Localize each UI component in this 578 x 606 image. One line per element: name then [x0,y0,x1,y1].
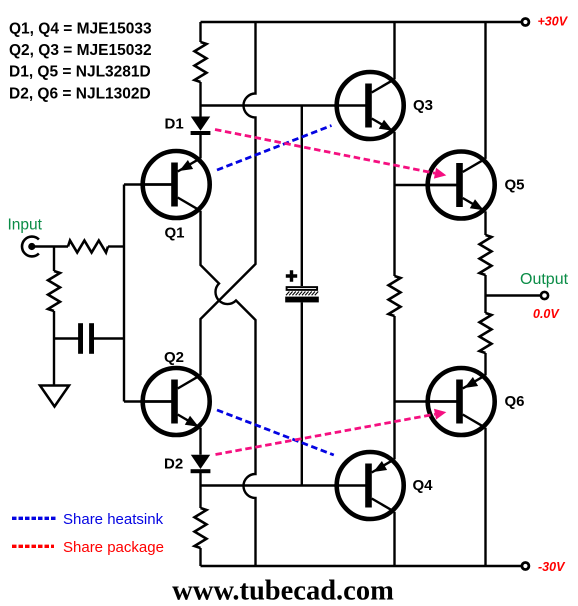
svg-text:Q5: Q5 [505,177,525,194]
svg-text:D2: D2 [164,456,183,473]
wire Q4 collector to rail [393,512,395,566]
wire R2 to -30V rail [199,548,201,566]
wire C- down to Q4-base line [301,302,303,485]
transistor Q2 (NPN) [140,368,210,435]
capacitor C (electrolytic, + top) [285,270,319,302]
svg-text:Q3: Q3 [413,97,433,114]
share-package dashed line D2-Q6 [216,409,447,455]
share-heatsink dashed line Q2-Q4 [217,410,334,455]
svg-text:-30V: -30V [538,560,566,574]
svg-text:D2, Q6 = NJL1302D: D2, Q6 = NJL1302D [9,86,151,103]
legend share heatsink [12,511,164,528]
wire Q2 base [124,400,171,402]
wire mid resistor to Q4 emitter [393,316,395,459]
svg-text:Q2, Q3 = MJE15032: Q2, Q3 = MJE15032 [9,42,152,59]
resistor (top left bias) [195,42,207,82]
svg-text:Input: Input [8,217,43,234]
wire Q6 collector to rail [484,428,486,566]
wire Q5 base tap [395,184,457,186]
resistor (bottom left bias) [195,508,207,548]
transistor Q3 (NPN) [334,72,404,139]
diode D1 [191,117,211,136]
svg-text:+30V: +30V [538,14,569,28]
svg-text:Q2: Q2 [164,349,184,366]
wire shunt R to cap tee [53,311,55,339]
svg-text:Q1: Q1 [165,225,185,242]
wire jack to junction [35,245,68,247]
wire Q2 emitter to D2 [199,428,201,455]
svg-text:Share heatsink: Share heatsink [63,511,164,528]
resistor (input series) [68,241,108,253]
resistor (Q5 emitter) [480,235,492,275]
svg-text:D1: D1 [165,116,184,133]
wire base column (Q1 base to Q2 base) [123,185,125,402]
resistor (middle driver) [389,276,401,316]
wire D1 to Q1 emitter [199,135,201,159]
svg-text:Share package: Share package [63,539,164,556]
wire R5 to output node [484,275,486,313]
diode D2 [191,455,211,474]
svg-text:Q1, Q4 = MJE15033: Q1, Q4 = MJE15033 [9,21,152,38]
input jack [22,237,39,257]
terminal Output [541,292,548,299]
wire node B to R2 [199,486,201,509]
wire tee to ground [53,339,55,386]
svg-text:Q4: Q4 [413,477,434,494]
terminal +30V [522,19,529,26]
wire node B to Q4 base [201,484,366,486]
wire cap to base column [94,337,124,339]
svg-text:D1, Q5 = NJL3281D: D1, Q5 = NJL3281D [9,64,151,81]
transistor Q4 (PNP) [334,452,404,519]
share-package dashed line D1-Q5 [215,130,446,179]
share-heatsink dashed line Q1-Q3 [217,126,332,171]
wire output node to terminal [486,294,542,296]
wire Q3 emitter to mid resistor [393,132,395,276]
wire rail to Q3 collector [393,22,395,79]
wire tee to cap [54,337,79,339]
capacitor (input) [78,323,94,354]
wire Q6 base tap [395,400,457,402]
wire -30V rail [201,565,522,567]
parts list text [9,21,152,103]
wire Q3-base line down to C+ [301,106,303,287]
wire node A to D1 [199,106,201,117]
wire R6 to Q6 emitter [484,353,486,375]
wire series R to base column [108,245,124,247]
wire Q5 emitter to R5 [484,211,486,235]
wire rail to Q5 collector [484,22,486,159]
legend share package [12,539,164,556]
transistor Q5 (NPN) [425,152,495,219]
wire rail to R1 [199,22,201,42]
wire junction down to shunt R [53,247,55,272]
wire +30V rail [201,21,522,23]
terminal -30V [522,563,529,570]
resistor (input shunt) [48,271,60,311]
wire +30V rail to Q2 collector via crossover (with hop) [201,22,256,375]
svg-text:Q6: Q6 [505,393,525,410]
svg-text:0.0V: 0.0V [533,307,560,321]
transistor Q6 (PNP) [425,368,495,435]
wire R1 to node A [199,82,201,106]
wire node A to Q3 base [201,104,366,106]
wire Q1 base [124,183,171,185]
svg-text:Output: Output [520,271,569,288]
ground [40,386,69,407]
transistor Q1 (PNP) [140,151,210,218]
wire Q1 collector to -30V rail via crossover (with hops) [201,211,256,566]
wire D2 to node B [199,473,201,486]
svg-text:www.tubecad.com: www.tubecad.com [172,576,394,606]
resistor (Q6 emitter) [480,313,492,353]
